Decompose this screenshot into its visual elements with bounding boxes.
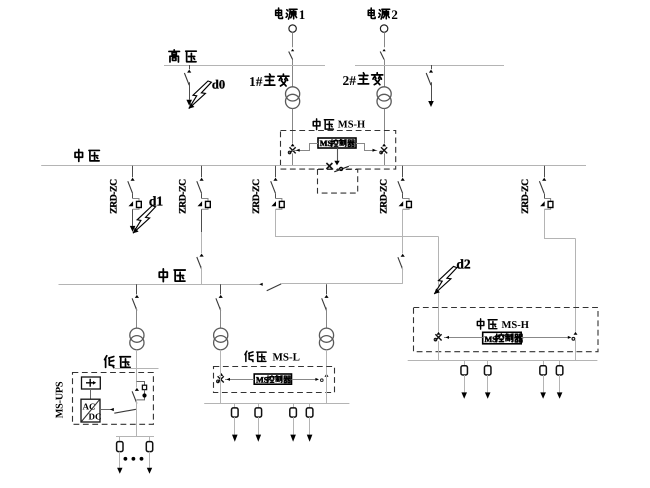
svg-text:2#: 2# bbox=[343, 73, 357, 88]
svg-text:MS-H: MS-H bbox=[502, 320, 529, 331]
svg-text:MS-H: MS-H bbox=[338, 120, 365, 131]
svg-text:ZRD-ZC: ZRD-ZC bbox=[378, 179, 389, 214]
svg-text:1: 1 bbox=[299, 7, 306, 22]
svg-text:MS-UPS: MS-UPS bbox=[54, 381, 65, 418]
svg-text:ZRD-ZC: ZRD-ZC bbox=[520, 179, 531, 214]
svg-text:DC: DC bbox=[89, 412, 102, 422]
svg-text:AC: AC bbox=[83, 402, 96, 412]
svg-text:ZRD-ZC: ZRD-ZC bbox=[108, 179, 119, 214]
svg-text:d2: d2 bbox=[456, 257, 471, 272]
svg-text:MS-L: MS-L bbox=[273, 351, 301, 363]
svg-text:d0: d0 bbox=[212, 77, 225, 91]
svg-text:ZRD-ZC: ZRD-ZC bbox=[177, 179, 188, 214]
svg-text:ZRD-ZC: ZRD-ZC bbox=[251, 179, 262, 214]
svg-text:2: 2 bbox=[391, 7, 398, 22]
svg-text:1#: 1# bbox=[249, 74, 263, 89]
svg-text:d1: d1 bbox=[149, 194, 164, 209]
